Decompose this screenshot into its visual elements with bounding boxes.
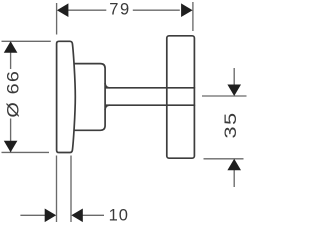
svg-text:Ø 66: Ø 66 — [4, 70, 22, 118]
svg-text:35: 35 — [222, 112, 241, 139]
svg-text:10: 10 — [109, 206, 129, 224]
svg-text:79: 79 — [109, 1, 131, 19]
